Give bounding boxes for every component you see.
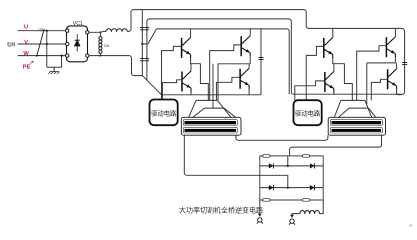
transistor Q4 (IGBT) xyxy=(240,68,249,89)
resistor R2 fuse top-right xyxy=(302,155,309,158)
wire Q3 emitter to rail xyxy=(190,92,192,95)
wire Q8 emitter to rail xyxy=(396,90,398,95)
wire output right side down xyxy=(320,200,324,214)
wire diagonal caps to collector rail xyxy=(148,29,157,44)
transistor Q2 (IGBT) xyxy=(241,36,250,57)
inductor L1 filter choke xyxy=(106,29,127,32)
transformer T2 body xyxy=(328,117,385,135)
svg-text:+: + xyxy=(410,224,413,230)
wire trapezoid inner T1 xyxy=(193,108,236,117)
op-amp U2 drive circuit box 驱动电路 xyxy=(294,100,322,125)
node A wire Q1 emitter to Q3 collector xyxy=(191,58,209,100)
svg-text:PE: PE xyxy=(23,64,31,70)
wire diode row 2 xyxy=(260,187,323,189)
label PE arrow xyxy=(30,61,33,64)
wire gate Q3 from driver xyxy=(162,80,182,100)
wire top bus step down at x306 xyxy=(304,10,405,95)
terminal VC1 pin V xyxy=(66,42,69,45)
wire Q1 collector lead xyxy=(190,29,192,38)
switch contact tick V xyxy=(39,43,43,45)
wire trapezoid outer T1 xyxy=(189,100,231,117)
transformer T1 primary winding xyxy=(183,120,237,126)
svg-text:电网: 电网 xyxy=(7,41,16,48)
wire phase U line xyxy=(18,30,67,32)
transistor Q5 (IGBT) xyxy=(324,37,333,58)
svg-text:驱动电路: 驱动电路 xyxy=(295,109,321,118)
resistor R3 fuse bottom-left xyxy=(263,199,270,202)
transistor Q8 (IGBT) xyxy=(388,69,397,90)
wire PE drop from W line xyxy=(61,56,63,68)
capacitor bank branch 2 xyxy=(146,21,148,80)
wire DC minus to emitter rail diagonal xyxy=(142,76,161,95)
terminal VC1 plus output xyxy=(86,31,89,34)
svg-text:V: V xyxy=(24,40,28,46)
svg-text:QS: QS xyxy=(39,27,44,31)
wire PE bottom joining xyxy=(47,66,62,68)
wire gate Q7 from driver2 xyxy=(295,81,325,100)
transistor Q7 (IGBT) xyxy=(325,72,334,93)
svg-text:VC1: VC1 xyxy=(73,21,83,27)
transistor Q1 (IGBT) xyxy=(182,37,191,58)
node junction dot W-PE xyxy=(61,55,63,57)
wire Q7 emitter to rail xyxy=(333,93,335,95)
wire T1 secondary left down to bridge xyxy=(184,135,287,187)
wire Q3 collector lead xyxy=(190,64,192,71)
transformer T2 secondary winding xyxy=(330,128,382,133)
terminal VC1 pin U xyxy=(66,29,69,32)
node B2 wire Q6 emitter to Q8 collector xyxy=(367,58,396,63)
op-amp U1 drive circuit box 驱动电路 xyxy=(150,100,178,126)
terminal output jack 2 xyxy=(290,215,294,218)
node B wire Q2 emitter to Q4 collector xyxy=(218,57,250,101)
capacitor plates branch2 lower xyxy=(145,59,149,61)
diode D4 xyxy=(310,185,315,190)
capacitor bank branch 1 xyxy=(141,10,143,76)
wire Q2 collector lead xyxy=(249,29,251,36)
capacitor C9 right bus snubber plates xyxy=(402,62,407,64)
wire trapezoid outer T2 xyxy=(334,100,371,117)
wire bus line2 minus rail xyxy=(147,19,401,94)
wire bottom emitter rail xyxy=(162,94,262,96)
switch QS 3-phase knife blade xyxy=(37,29,45,57)
wire gate Q1 from driver xyxy=(162,46,182,99)
terminal VC1 pin W xyxy=(66,54,69,57)
rectifier bridge output box xyxy=(260,156,323,200)
wire diode row 1 xyxy=(260,165,323,167)
terminal VC1 minus output xyxy=(86,54,89,57)
wire PE drop from U line xyxy=(46,31,48,67)
wire Q5 collector lead xyxy=(332,28,334,37)
wire Q7 collector lead xyxy=(333,64,335,72)
node junction dot V tap xyxy=(46,43,48,45)
transformer T2 primary winding xyxy=(330,120,382,126)
node dot cap junction xyxy=(141,43,143,45)
diode inside VC1 xyxy=(74,34,80,52)
wire phase V line xyxy=(18,43,67,45)
capacitor plates branch2 upper xyxy=(145,28,149,30)
diode D3 xyxy=(269,185,274,190)
wire gate Q8 xyxy=(371,79,387,100)
wire bridge center vertical top xyxy=(287,156,289,166)
node dot C8 top xyxy=(99,31,101,33)
resistor R1 fuse top-left xyxy=(263,155,270,158)
wire ground stem xyxy=(53,67,55,71)
wire phase W line xyxy=(18,55,67,57)
node dot C8 bottom xyxy=(99,55,101,57)
wire gate Q4 xyxy=(216,77,240,100)
transistor Q6 (IGBT) xyxy=(386,37,395,58)
transistor Q3 (IGBT) xyxy=(182,71,191,92)
wire gate Q2 xyxy=(210,45,242,101)
resistor R4 fuse bottom-right xyxy=(302,199,309,202)
transformer T1 secondary winding xyxy=(183,128,237,133)
wire transformer2 feed inner xyxy=(366,63,368,104)
switch contact tick W xyxy=(36,55,40,57)
wire T2 secondary right to bridge top xyxy=(290,135,382,156)
node junction dot U-PE xyxy=(46,30,48,32)
wire DC plus from VC1 xyxy=(89,30,106,33)
wire choke to terminal 2 xyxy=(292,214,300,215)
diode D1 xyxy=(269,163,274,168)
svg-text:驱动电路: 驱动电路 xyxy=(151,108,177,117)
capacitor plates branch1 upper xyxy=(140,28,145,30)
wire Q4 emitter to rail xyxy=(248,89,250,95)
wire trapezoid inner T2 xyxy=(339,108,376,117)
capacitor plates branch1 lower xyxy=(140,59,145,61)
wire Q6 collector lead xyxy=(394,28,396,36)
wire C8 bottom lead xyxy=(99,53,101,55)
svg-text:W: W xyxy=(23,51,29,57)
wire gate Q5 from driver2 xyxy=(306,46,324,100)
wire Q4 collector lead xyxy=(248,64,250,69)
wire choke to top bus riser xyxy=(127,10,303,32)
wire gate Q6 xyxy=(357,46,387,101)
ground symbol hatched xyxy=(48,72,59,74)
node dot diode ticks row1 xyxy=(265,165,279,167)
wire C8 top lead xyxy=(99,32,101,36)
wire Q8 collector lead xyxy=(396,63,398,69)
svg-text:U: U xyxy=(24,25,28,31)
wire output left terminal drop xyxy=(259,200,261,214)
switch contact tick U xyxy=(42,30,46,32)
diode D2 xyxy=(310,163,315,168)
inductor L2 output choke xyxy=(300,211,320,214)
wire T1 bottom-right to T2 bottom-left xyxy=(236,135,328,140)
wire cap junction link xyxy=(142,43,148,45)
node A2 wire Q5 emitter to Q7 collector xyxy=(333,58,353,100)
capacitor C10 plates xyxy=(258,57,263,59)
svg-text:C8: C8 xyxy=(104,43,110,48)
svg-text:大功率切割机全桥逆变电路: 大功率切割机全桥逆变电路 xyxy=(179,205,263,214)
terminal output jack 1 xyxy=(258,214,262,217)
wire transformer feed inner left xyxy=(212,64,214,108)
capacitor C8 snubber chain across rectifier xyxy=(99,37,102,40)
node dot bridge row2 xyxy=(287,187,289,189)
rectifier VC1 body xyxy=(67,26,88,62)
capacitor C10 left snubber branch xyxy=(260,29,262,95)
transformer T1 body xyxy=(181,117,241,135)
wire DC minus from VC1 xyxy=(89,56,142,76)
node dot bridge row1 xyxy=(287,165,289,167)
wire collector rail left group xyxy=(157,29,290,94)
